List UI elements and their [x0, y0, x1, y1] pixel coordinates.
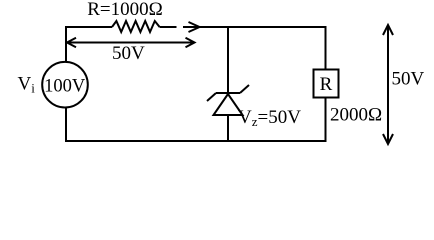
current arrow on top wire	[183, 26, 199, 28]
zener diode D1 cathode bar	[216, 92, 240, 94]
svg-text:2000Ω: 2000Ω	[330, 105, 382, 126]
wire top-middle segment	[160, 26, 177, 28]
svg-text:Vi: Vi	[18, 74, 36, 96]
wire left vertical lower	[65, 108, 67, 143]
wire right branch upper	[325, 26, 327, 69]
wire right branch lower	[325, 98, 327, 143]
svg-text:R=1000Ω: R=1000Ω	[87, 0, 163, 20]
voltage arrow 50V across load	[387, 25, 389, 144]
svg-text:R: R	[320, 74, 333, 95]
zener right bent end	[240, 85, 249, 93]
wire top-left segment	[66, 26, 112, 28]
wire middle branch lower	[227, 115, 229, 142]
voltage arrow 50V across resistor	[67, 42, 195, 44]
svg-text:Vz=50V: Vz=50V	[238, 107, 301, 129]
source V1 circle	[42, 62, 88, 108]
wire top-right segment	[200, 26, 326, 28]
resistor R load box	[314, 70, 339, 98]
zener left bent end	[207, 93, 216, 101]
svg-text:50V: 50V	[392, 69, 425, 90]
wire middle branch upper	[227, 26, 229, 93]
svg-text:100V: 100V	[44, 77, 86, 97]
svg-text:50V: 50V	[112, 43, 145, 64]
wire left vertical upper	[65, 26, 67, 62]
wire bottom	[65, 140, 326, 142]
resistor R zigzag	[112, 21, 160, 32]
zener diode triangle	[214, 94, 243, 115]
